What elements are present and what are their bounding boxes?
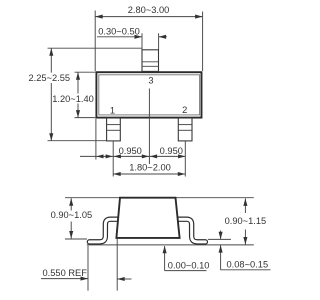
dimension 0.30~0.50 line and arrows (97, 35, 167, 39)
dimension 0.90~1.05 line (69, 198, 73, 238)
svg-text:0.30~0.50: 0.30~0.50 (98, 27, 140, 37)
svg-text:1.20~1.40: 1.20~1.40 (52, 94, 94, 104)
dimension 0.550 REF extension line left (87, 246, 89, 291)
svg-text:0.550 REF: 0.550 REF (43, 268, 88, 278)
pin 1 lead (bottom left) (107, 118, 121, 141)
extension line pin 1 center (112, 141, 114, 177)
package centerline (148, 89, 150, 165)
dimension 0.08~0.15 leader arrow (219, 245, 271, 270)
svg-text:1: 1 (110, 106, 115, 116)
foot top extension line right (208, 238, 231, 240)
left gull-wing lead (89, 219, 117, 242)
dimension 0.00~0.10 leader arrow (163, 246, 207, 271)
extension line pin 2 center (184, 141, 186, 177)
svg-text:0.08~0.15: 0.08~0.15 (227, 260, 269, 270)
svg-text:2: 2 (182, 105, 187, 115)
svg-text:0.90~1.15: 0.90~1.15 (225, 216, 267, 226)
extension line body left edge down (95, 119, 97, 160)
dimension 2.25~2.55 line (49, 48, 53, 141)
svg-text:0.00~0.10: 0.00~0.10 (168, 260, 210, 270)
dimension 2.80~3.00 extension line right (202, 12, 204, 72)
side view body top extension line right (176, 197, 254, 199)
dimension 2.25~2.55 extension line bottom (48, 140, 107, 142)
dimension 2.80~3.00 line (95, 15, 202, 19)
dimension 0.550 REF extension line right (116, 239, 118, 291)
dimension 0.550 REF line (41, 277, 132, 282)
svg-text:2.80~3.00: 2.80~3.00 (128, 5, 170, 15)
dimension 2.80~3.00 extension line left (94, 11, 96, 72)
svg-text:3: 3 (148, 76, 153, 86)
foot top extension line left (65, 238, 87, 240)
pin 3 lead (top) (142, 50, 159, 72)
top view package body outer outline (96, 72, 201, 117)
dimension 1.20~1.40 extension line bottom (75, 117, 96, 119)
top view package body inner outline (99, 75, 200, 115)
dimension 0.950 line row (80, 154, 185, 158)
svg-text:0.950: 0.950 (160, 146, 183, 156)
dimension 0.30~0.50 extension lines (142, 33, 159, 49)
right gull-wing lead (178, 219, 205, 242)
dimension 0.08~0.15 upper arrow (219, 231, 223, 240)
dimension 1.20~1.40 extension line top (75, 71, 96, 73)
dimension 2.25~2.55 extension line top (48, 47, 143, 49)
svg-text:1.80~2.00: 1.80~2.00 (129, 163, 171, 173)
dimension 1.80~2.00 line (113, 172, 185, 176)
svg-text:0.90~1.05: 0.90~1.05 (51, 210, 93, 220)
side view body top extension line left (65, 197, 120, 199)
svg-text:2.25~2.55: 2.25~2.55 (28, 73, 70, 83)
pin 2 lead (bottom right) (178, 118, 192, 141)
svg-text:0.950: 0.950 (119, 146, 142, 156)
dimension 0.90~1.15 line (243, 198, 247, 244)
seating plane line (87, 244, 254, 246)
side view body (116, 198, 179, 238)
dimension 1.20~1.40 line (76, 72, 80, 117)
